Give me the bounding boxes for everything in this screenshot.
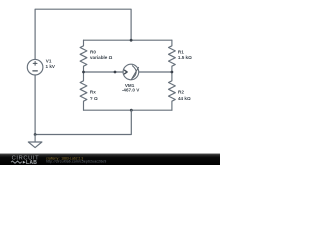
voltage source V1 body [27, 59, 43, 75]
wire bridge bottom rail [84, 109, 172, 111]
voltmeter VM1 body [123, 64, 139, 80]
resistor R1 [169, 40, 176, 72]
voltage source V1 plus sign [33, 62, 37, 66]
voltmeter VM1 plus-side chevron [125, 70, 128, 74]
svg-text:1.5 kΩ: 1.5 kΩ [178, 55, 192, 60]
wire middle row left [84, 71, 124, 73]
wire middle row right [139, 71, 172, 73]
svg-text:1 kV: 1 kV [46, 64, 56, 69]
svg-text:? Ω: ? Ω [90, 96, 98, 101]
wire top rail from V1 top over to bridge drop [35, 9, 131, 59]
svg-text:-467.0 V: -467.0 V [122, 88, 140, 93]
footer logo resistor zigzag [11, 161, 22, 163]
node junction ground (35.1,134.5) [34, 133, 37, 136]
svg-text:R1: R1 [178, 49, 184, 54]
node junction right branch (171.9,72) [171, 71, 174, 74]
footer bar [0, 153, 220, 165]
wire bridge top rail [84, 39, 172, 41]
resistor Rx [80, 72, 87, 110]
ground symbol [28, 135, 42, 148]
svg-text:R0: R0 [90, 49, 96, 54]
svg-text:LAB: LAB [26, 160, 37, 165]
node junction top (131,40) [130, 39, 133, 42]
svg-text:variable Ω: variable Ω [90, 55, 113, 60]
voltmeter VM1 dial arc [132, 66, 136, 79]
node junction bottom (131.3,110.2) [130, 109, 133, 112]
voltage source V1 minus sign [33, 70, 37, 72]
svg-text:V1: V1 [46, 58, 52, 63]
footer logo arrow [23, 161, 26, 164]
svg-text:Rx: Rx [90, 90, 96, 95]
svg-text:http://circuitlab.com/c5ep62ua: http://circuitlab.com/c5ep62uac26e9 [46, 160, 106, 164]
resistor R2 [169, 72, 176, 110]
svg-text:44 kΩ: 44 kΩ [178, 96, 191, 101]
schematic text labels (scaled down for sub-pixel size) [46, 49, 193, 100]
node junction left branch (83.5,72) [82, 71, 85, 74]
voltmeter VM1 needle [132, 67, 139, 79]
resistor R0 [80, 40, 87, 72]
footer CircuitLab logo word CIRCUIT [12, 155, 107, 166]
wire bottom return to ground rail [35, 110, 131, 134]
svg-text:R2: R2 [178, 90, 184, 95]
node wire joint (115,72) [114, 71, 117, 74]
wire V1 bottom lead [34, 75, 36, 135]
